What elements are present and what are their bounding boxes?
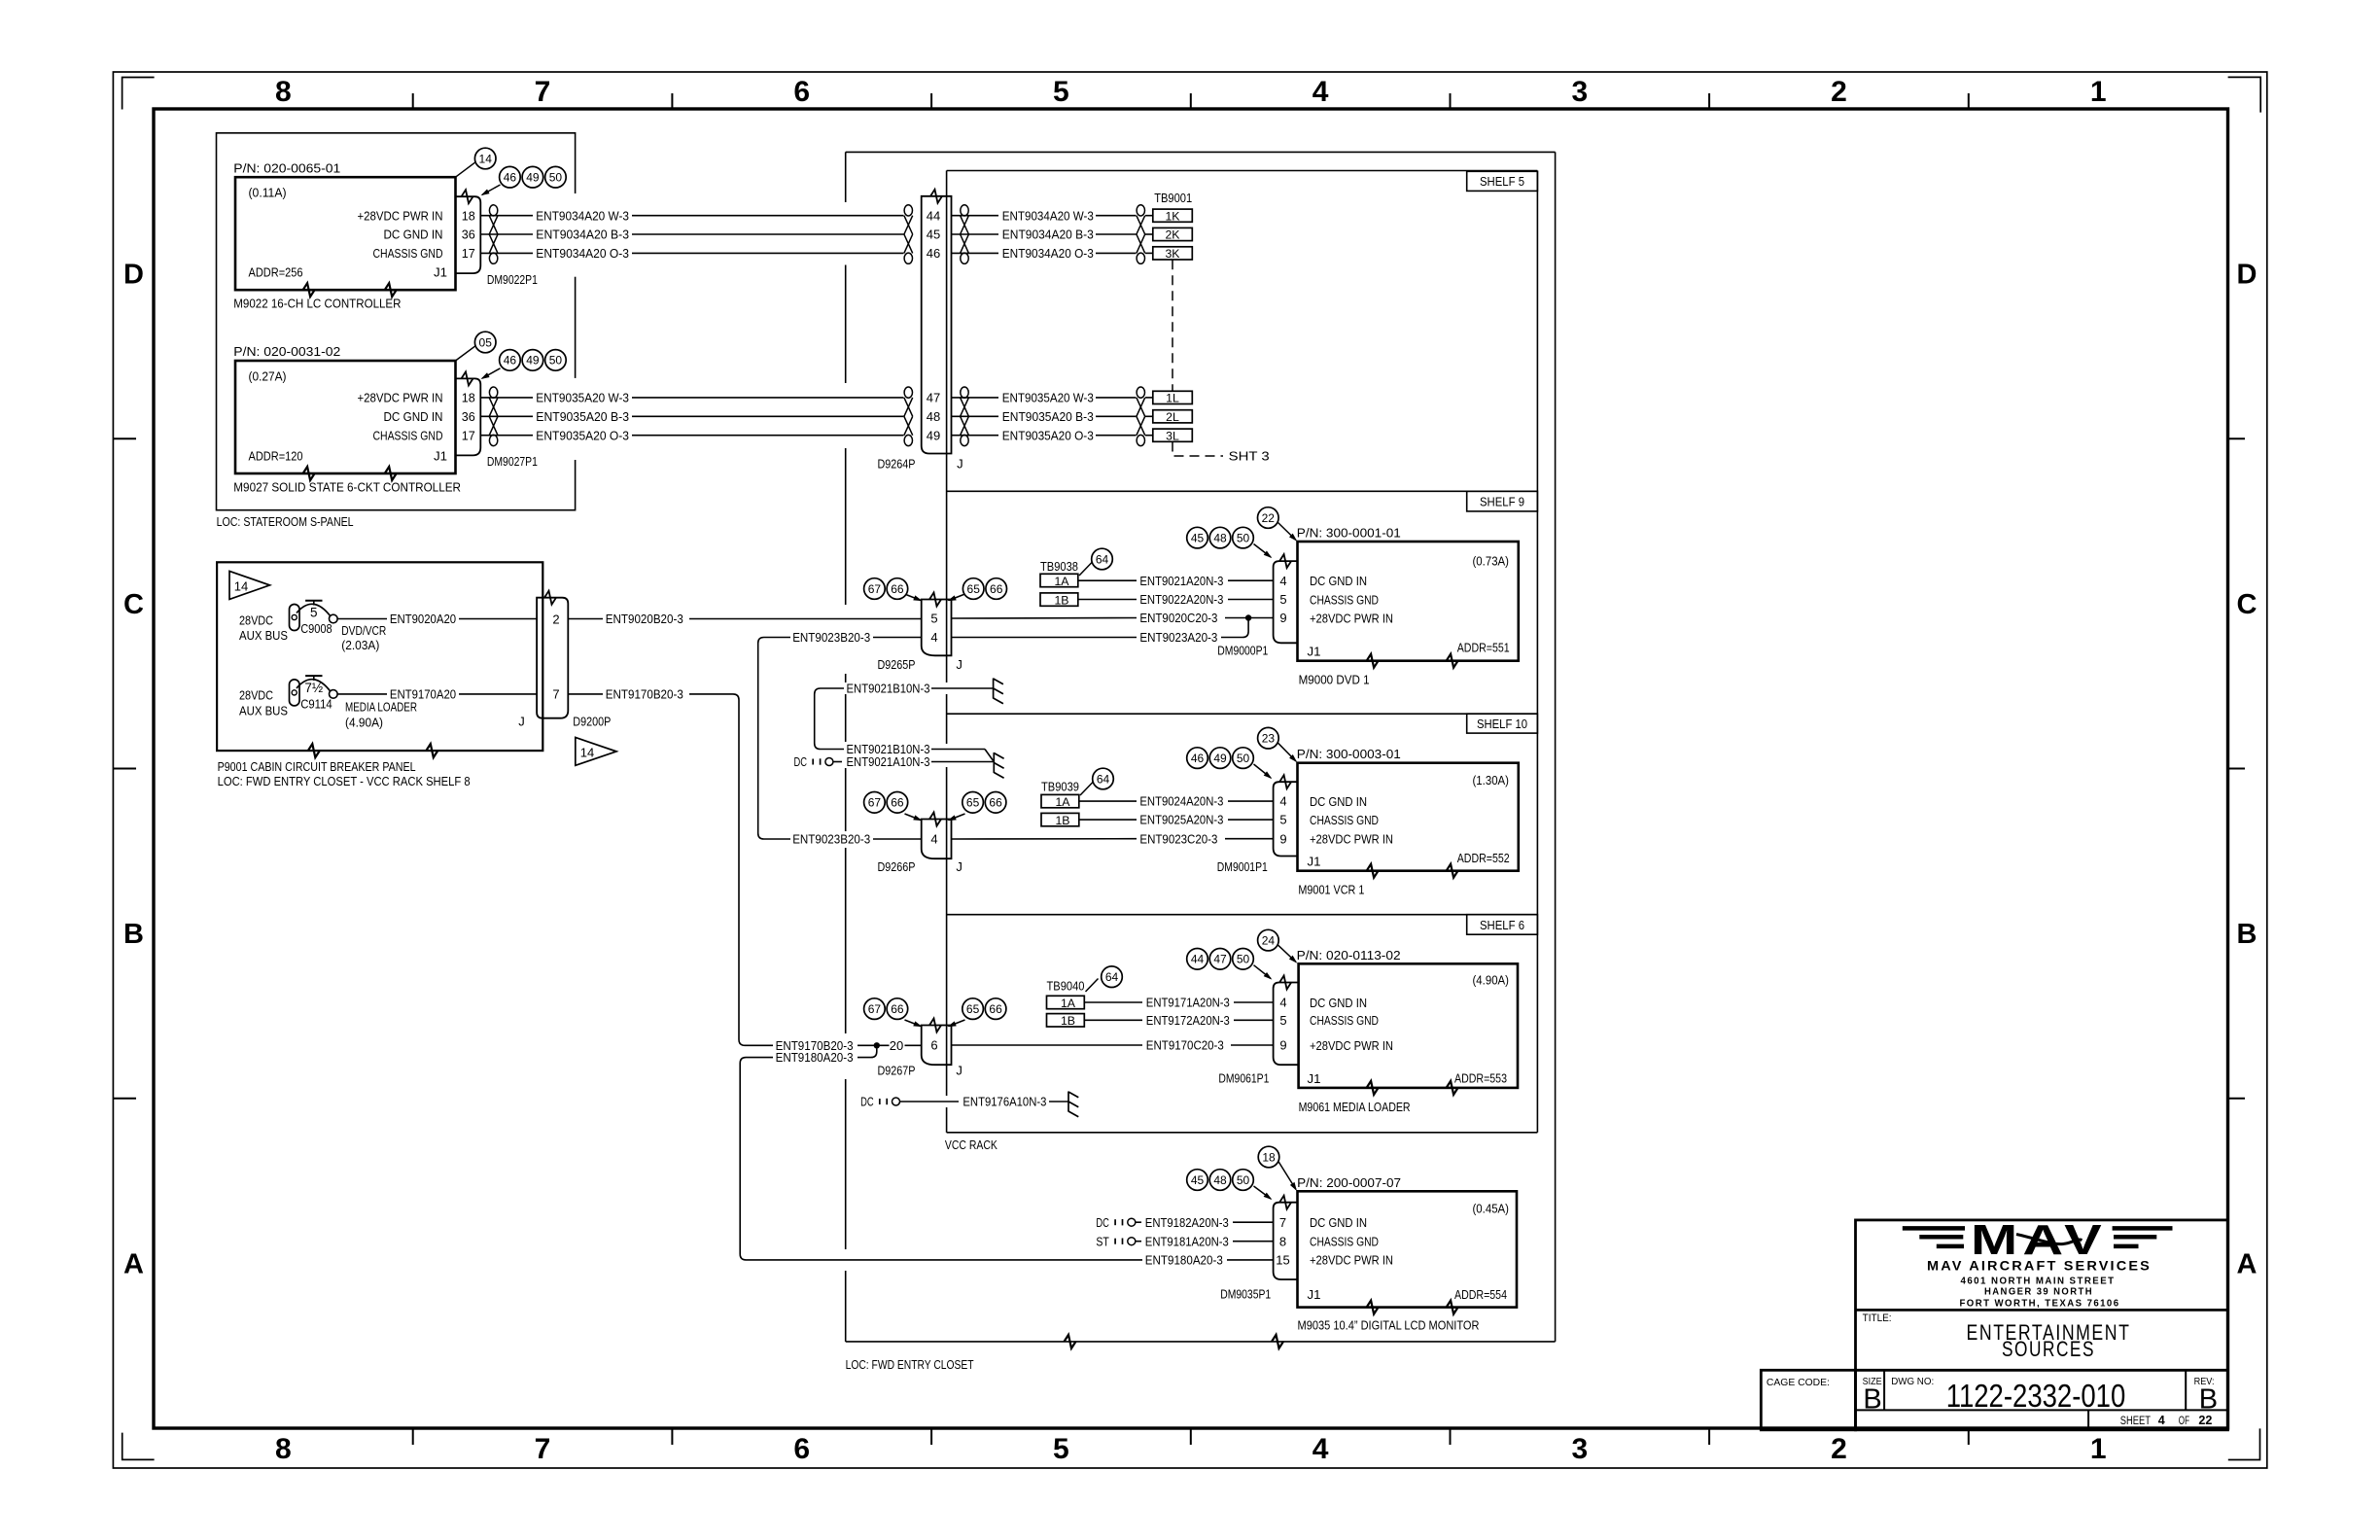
wire ENT9024A20N-3 — [1079, 800, 1137, 802]
chassis ground (ENT9021B10N/A10N) — [993, 752, 995, 773]
wire ENT9170B20-3 — [568, 693, 603, 695]
twisted wires at DM9022P1 — [489, 205, 497, 216]
svg-text:(0.27A): (0.27A) — [249, 369, 287, 384]
svg-text:DC GND IN: DC GND IN — [1310, 574, 1367, 588]
wire ENT9021B10N-3 (upper) to ground — [815, 688, 844, 750]
svg-text:P/N: 300-0003-01: P/N: 300-0003-01 — [1297, 747, 1401, 761]
svg-text:M9001 VCR 1: M9001 VCR 1 — [1298, 883, 1364, 897]
svg-text:CHASSIS GND: CHASSIS GND — [1310, 813, 1379, 827]
svg-text:DC: DC — [1096, 1215, 1109, 1230]
svg-text:TB9039: TB9039 — [1041, 780, 1079, 794]
svg-text:14: 14 — [234, 579, 248, 594]
svg-text:ENT9020C20-3: ENT9020C20-3 — [1139, 611, 1217, 625]
svg-text:M9027 SOLID STATE 6-CKT CO: M9027 SOLID STATE 6-CKT CONTROLLER — [233, 479, 461, 494]
svg-text:DC GND IN: DC GND IN — [1310, 1215, 1367, 1230]
terminal TB9001 1K — [1153, 209, 1193, 222]
balloons 46 49 50 (M9027) — [482, 368, 501, 378]
svg-text:ADDR=256: ADDR=256 — [249, 265, 303, 280]
svg-text:1L: 1L — [1166, 392, 1179, 405]
wire ENT9034A20 B-3 (to TB9001 2K) — [952, 233, 999, 235]
svg-text:DC: DC — [794, 754, 808, 769]
svg-text:SHELF 6: SHELF 6 — [1480, 919, 1524, 932]
svg-text:(2.03A): (2.03A) — [341, 638, 379, 652]
wire ENT9020B20-3 — [568, 618, 603, 620]
svg-text:ENT9035A20 O-3: ENT9035A20 O-3 — [1002, 428, 1094, 442]
svg-text:50: 50 — [1237, 1173, 1250, 1187]
svg-text:P9001 CABIN CIRCUIT BREAKER: P9001 CABIN CIRCUIT BREAKER PANEL — [218, 759, 416, 774]
svg-text:22: 22 — [1262, 511, 1276, 525]
svg-text:J: J — [956, 657, 962, 672]
svg-text:P/N: 300-0001-01: P/N: 300-0001-01 — [1297, 526, 1401, 541]
svg-text:ADDR=552: ADDR=552 — [1457, 851, 1510, 865]
svg-text:SHT 3: SHT 3 — [1229, 449, 1270, 464]
svg-text:J: J — [956, 859, 962, 874]
svg-text:ENT9025A20N-3: ENT9025A20N-3 — [1139, 813, 1223, 827]
wire ENT9023A20-3 — [952, 637, 1137, 639]
svg-text:67: 67 — [868, 796, 882, 810]
svg-text:1B: 1B — [1055, 814, 1069, 827]
svg-text:6: 6 — [930, 1038, 937, 1053]
svg-text:05: 05 — [479, 335, 493, 349]
svg-text:ENT9034A20 W-3: ENT9034A20 W-3 — [536, 208, 629, 223]
wire ENT9034A20 B-3 — [480, 233, 533, 235]
svg-text:47: 47 — [1213, 953, 1227, 966]
svg-text:ENT9176A10N-3: ENT9176A10N-3 — [962, 1095, 1046, 1109]
svg-text:B: B — [1863, 1384, 1881, 1416]
svg-text:4: 4 — [1312, 1433, 1329, 1465]
svg-text:CHASSIS GND: CHASSIS GND — [373, 428, 443, 442]
svg-text:D9265P: D9265P — [878, 657, 916, 672]
svg-text:DM9035P1: DM9035P1 — [1220, 1287, 1271, 1302]
svg-text:C: C — [123, 589, 144, 620]
svg-text:D9264P: D9264P — [878, 457, 916, 472]
svg-text:LOC: STATEROOM S-PANEL: LOC: STATEROOM S-PANEL — [217, 514, 354, 529]
svg-text:3: 3 — [1571, 76, 1588, 108]
svg-text:5: 5 — [930, 612, 937, 626]
svg-text:ENT9023C20-3: ENT9023C20-3 — [1139, 831, 1217, 846]
svg-text:47: 47 — [927, 391, 940, 405]
svg-text:C: C — [2237, 589, 2257, 620]
terminal TB9001 3L — [1153, 429, 1193, 441]
svg-text:9: 9 — [1279, 831, 1286, 846]
balloons 44 47 50 (M9061) — [1187, 949, 1208, 970]
device M9000 DVD 1 — [1298, 542, 1519, 661]
svg-text:65: 65 — [966, 796, 980, 810]
svg-text:J: J — [518, 715, 525, 729]
svg-text:CAGE CODE:: CAGE CODE: — [1767, 1377, 1830, 1388]
svg-text:ENT9023A20-3: ENT9023A20-3 — [1139, 630, 1217, 645]
wire ENT9025A20N-3 — [1079, 819, 1137, 821]
terminal TB9040 1A — [1047, 996, 1085, 1008]
svg-text:SHEET: SHEET — [2120, 1416, 2151, 1427]
svg-text:44: 44 — [1191, 953, 1205, 966]
connector DM9061P1 — [1274, 983, 1298, 1066]
svg-text:ENT9022A20N-3: ENT9022A20N-3 — [1139, 592, 1223, 607]
svg-text:66: 66 — [891, 582, 904, 596]
svg-text:+28VDC PWR IN: +28VDC PWR IN — [1310, 832, 1393, 847]
svg-text:1A: 1A — [1054, 575, 1069, 588]
svg-text:CHASSIS GND: CHASSIS GND — [373, 246, 443, 261]
svg-text:1K: 1K — [1165, 209, 1180, 223]
balloon 14 — [456, 161, 477, 178]
svg-text:P/N: 020-0031-02: P/N: 020-0031-02 — [233, 344, 340, 359]
svg-text:48: 48 — [1213, 531, 1227, 544]
svg-text:P/N: 200-0007-07: P/N: 200-0007-07 — [1297, 1175, 1401, 1190]
terminal TB9001 3K — [1153, 247, 1193, 260]
svg-text:DVD/VCR: DVD/VCR — [341, 623, 386, 638]
svg-text:D9267P: D9267P — [878, 1064, 916, 1078]
svg-text:DC GND IN: DC GND IN — [384, 409, 443, 424]
svg-text:CHASSIS GND: CHASSIS GND — [1310, 592, 1379, 607]
terminal TB9039 1B — [1041, 813, 1079, 825]
label box SHELF 9 — [1467, 491, 1538, 511]
svg-text:P/N: 020-0065-01: P/N: 020-0065-01 — [233, 160, 340, 175]
svg-text:18: 18 — [462, 208, 475, 223]
svg-text:66: 66 — [891, 796, 904, 810]
logo speed lines left — [1903, 1226, 1965, 1231]
svg-text:18: 18 — [462, 391, 475, 405]
svg-text:J1: J1 — [1308, 645, 1321, 659]
wire ENT9034A20 O-3 (to TB9001 3K) — [952, 252, 999, 254]
svg-text:LOC: FWD ENTRY CLOSET: LOC: FWD ENTRY CLOSET — [846, 1357, 974, 1372]
title block frame — [1856, 1220, 2228, 1430]
balloon 22 with arrow — [1258, 507, 1279, 529]
svg-text:65: 65 — [967, 582, 981, 596]
terminal TB9040 1B — [1047, 1014, 1085, 1027]
svg-text:ENT9170B20-3: ENT9170B20-3 — [606, 687, 683, 702]
svg-text:M9061 MEDIA LOADER: M9061 MEDIA LOADER — [1299, 1100, 1411, 1114]
svg-text:2: 2 — [1831, 1433, 1847, 1465]
svg-text:FORT WORTH, TEXAS 76106: FORT WORTH, TEXAS 76106 — [1960, 1298, 2120, 1309]
svg-text:(4.90A): (4.90A) — [1473, 973, 1510, 988]
device M9035 10.4 inch digital LCD monitor — [1298, 1191, 1518, 1307]
svg-text:ENT9034A20 O-3: ENT9034A20 O-3 — [536, 246, 629, 261]
svg-text:AUX BUS: AUX BUS — [239, 703, 288, 717]
svg-text:ENT9035A20 O-3: ENT9035A20 O-3 — [536, 428, 629, 442]
svg-text:8: 8 — [275, 1433, 292, 1465]
svg-text:D: D — [123, 260, 144, 291]
svg-text:ADDR=553: ADDR=553 — [1454, 1070, 1507, 1085]
connector D9265P — [922, 600, 952, 656]
connector DM9001P1 — [1274, 782, 1298, 856]
svg-text:ENT9020A20: ENT9020A20 — [390, 612, 456, 626]
svg-text:SOURCES: SOURCES — [2002, 1337, 2095, 1361]
svg-text:50: 50 — [1237, 531, 1250, 544]
balloon 64 (TB9040) — [1102, 966, 1123, 988]
svg-text:28VDC: 28VDC — [239, 612, 273, 627]
svg-text:44: 44 — [927, 208, 940, 223]
svg-text:(0.45A): (0.45A) — [1473, 1202, 1510, 1216]
svg-text:5: 5 — [1053, 76, 1069, 108]
shelf divider (shelf 6) — [947, 914, 1538, 916]
svg-text:66: 66 — [989, 1002, 1002, 1016]
svg-text:+28VDC PWR IN: +28VDC PWR IN — [1310, 611, 1393, 625]
svg-text:ENT9180A20-3: ENT9180A20-3 — [1145, 1253, 1223, 1268]
wire ENT9023C20-3 — [952, 838, 1137, 840]
svg-text:ENT9024A20N-3: ENT9024A20N-3 — [1139, 794, 1223, 809]
svg-text:ENT9035A20 W-3: ENT9035A20 W-3 — [536, 391, 629, 405]
svg-text:5: 5 — [1053, 1433, 1069, 1465]
svg-text:2L: 2L — [1166, 410, 1179, 424]
wire ENT9023B20-3 — [873, 637, 922, 639]
svg-text:48: 48 — [1213, 1173, 1227, 1187]
wire ENT9035A20 O-3 — [480, 435, 533, 437]
svg-text:ENT9023B20-3: ENT9023B20-3 — [792, 832, 870, 847]
svg-text:DM9061P1: DM9061P1 — [1218, 1070, 1269, 1085]
balloons 67 66 (D9267P) — [905, 1020, 922, 1027]
svg-text:5: 5 — [310, 606, 318, 620]
svg-text:6: 6 — [793, 1433, 810, 1465]
svg-text:67: 67 — [868, 582, 882, 596]
wire ENT9022A20N-3 — [1078, 599, 1137, 601]
svg-text:VCC RACK: VCC RACK — [945, 1137, 997, 1152]
svg-text:M9022 16-CH LC CONTROLLER: M9022 16-CH LC CONTROLLER — [233, 297, 401, 311]
wire ENT9171A20N-3 — [1084, 1001, 1142, 1003]
svg-text:ENT9035A20 B-3: ENT9035A20 B-3 — [1002, 409, 1094, 424]
wire ENT9035A20 B-3 — [480, 415, 533, 417]
svg-text:(4.90A): (4.90A) — [345, 716, 383, 730]
svg-text:3L: 3L — [1166, 429, 1179, 442]
connector D9264P — [922, 196, 952, 454]
device M9061 MEDIA LOADER — [1299, 963, 1518, 1088]
wire ENT9035A20 W-3 (to TB9001 1L) — [952, 397, 999, 399]
svg-text:8: 8 — [275, 76, 292, 108]
svg-text:DC GND IN: DC GND IN — [1310, 996, 1367, 1010]
chassis ground (ENT9176A10N-3) — [1067, 1092, 1069, 1112]
terminal TB9001 2L — [1153, 410, 1193, 423]
svg-text:MEDIA LOADER: MEDIA LOADER — [345, 700, 417, 715]
svg-text:D9200P: D9200P — [573, 715, 611, 729]
svg-text:ENT9170A20: ENT9170A20 — [390, 687, 456, 702]
svg-text:(1.30A): (1.30A) — [1473, 773, 1510, 787]
svg-text:64: 64 — [1105, 970, 1119, 984]
svg-text:ENT9021A10N-3: ENT9021A10N-3 — [847, 754, 930, 769]
svg-text:B: B — [2199, 1384, 2218, 1416]
svg-text:B: B — [2237, 919, 2257, 950]
svg-text:22: 22 — [2198, 1414, 2212, 1427]
svg-text:2: 2 — [1831, 76, 1847, 108]
svg-text:17: 17 — [462, 428, 475, 442]
wire ENT9021A20N-3 — [1078, 579, 1137, 581]
svg-text:64: 64 — [1097, 772, 1110, 786]
svg-text:14: 14 — [479, 152, 493, 165]
svg-text:ENT9035A20 B-3: ENT9035A20 B-3 — [536, 409, 629, 424]
svg-text:50: 50 — [1237, 752, 1250, 765]
balloons 46 49 50 (M9001) — [1187, 748, 1208, 769]
svg-text:LOC: FWD ENTRY CLOSET - V: LOC: FWD ENTRY CLOSET - VCC RACK SHELF 8 — [218, 774, 471, 788]
balloons 65 66 (D9266P) — [949, 814, 965, 821]
svg-text:20: 20 — [890, 1038, 903, 1053]
svg-text:D9266P: D9266P — [878, 859, 916, 874]
svg-text:4: 4 — [1279, 574, 1286, 588]
wire ENT9172A20N-3 — [1084, 1019, 1142, 1021]
svg-text:66: 66 — [891, 1002, 904, 1016]
svg-text:ADDR=120: ADDR=120 — [249, 448, 303, 463]
dashed link to SHT 3 — [1172, 442, 1223, 457]
terminal TB9038 1B — [1040, 593, 1078, 606]
svg-text:+28VDC PWR IN: +28VDC PWR IN — [358, 391, 443, 405]
svg-text:DC: DC — [860, 1095, 874, 1109]
balloon 64 (TB9039) — [1093, 768, 1114, 789]
junction node (ENT9170B20/9180A20) — [874, 1042, 880, 1048]
connector DM9035P1 — [1274, 1203, 1298, 1279]
svg-text:50: 50 — [1237, 953, 1250, 966]
wire ENT9170A20 — [337, 693, 387, 695]
svg-text:5: 5 — [1279, 813, 1286, 827]
svg-text:ENT9170C20-3: ENT9170C20-3 — [1146, 1038, 1224, 1053]
svg-text:TB9038: TB9038 — [1040, 559, 1078, 574]
wire ENT9034A20 W-3 — [480, 215, 533, 217]
balloons 45 48 50 (M9035) — [1187, 1170, 1208, 1191]
svg-text:ENT9034A20 O-3: ENT9034A20 O-3 — [1002, 246, 1094, 261]
svg-text:DM9000P1: DM9000P1 — [1217, 644, 1268, 658]
flag 14 (D9200P) — [576, 738, 616, 766]
svg-text:46: 46 — [927, 246, 940, 261]
svg-text:46: 46 — [504, 171, 517, 185]
svg-text:66: 66 — [990, 582, 1003, 596]
device M9001 VCR 1 — [1298, 763, 1519, 871]
svg-text:B: B — [123, 919, 144, 950]
svg-text:46: 46 — [504, 354, 517, 367]
svg-text:C9114: C9114 — [300, 696, 332, 711]
twisted wires left of D9264P — [904, 205, 912, 216]
svg-text:1: 1 — [2090, 1433, 2107, 1465]
svg-text:P/N: 020-0113-02: P/N: 020-0113-02 — [1297, 948, 1401, 962]
svg-text:4: 4 — [930, 630, 937, 645]
panel P9001 cabin circuit breaker panel — [217, 562, 542, 751]
svg-text:CHASSIS GND: CHASSIS GND — [1310, 1235, 1379, 1249]
svg-text:65: 65 — [966, 1002, 980, 1016]
svg-text:46: 46 — [1191, 752, 1205, 765]
balloon 23 with arrow — [1258, 727, 1279, 749]
connector DM9000P1 — [1274, 561, 1298, 643]
svg-text:36: 36 — [462, 227, 475, 242]
balloon 18 with arrow — [1258, 1146, 1279, 1168]
connector D9200P — [537, 598, 568, 718]
svg-text:1122-2332-010: 1122-2332-010 — [1946, 1378, 2126, 1414]
dashed link 3K to 1L — [1172, 260, 1173, 391]
svg-text:CHASSIS GND: CHASSIS GND — [1310, 1013, 1379, 1028]
svg-text:7: 7 — [535, 76, 551, 108]
balloon 24 with arrow — [1258, 929, 1279, 951]
balloon 05 — [456, 345, 477, 361]
svg-text:2: 2 — [552, 612, 559, 626]
svg-text:C9008: C9008 — [300, 621, 332, 636]
svg-text:1A: 1A — [1055, 795, 1070, 809]
svg-text:J1: J1 — [1308, 1287, 1321, 1302]
svg-text:45: 45 — [1191, 531, 1205, 544]
balloons 67 66 (D9266P) — [905, 814, 922, 821]
svg-text:3K: 3K — [1165, 247, 1180, 261]
svg-text:AUX BUS: AUX BUS — [239, 628, 288, 643]
balloon 64 (TB9038) — [1092, 548, 1113, 570]
label box SHELF 10 — [1467, 714, 1538, 733]
svg-text:66: 66 — [989, 796, 1002, 810]
enclosure LOC: FWD ENTRY CLOSET — [845, 152, 847, 202]
svg-text:J1: J1 — [434, 448, 447, 463]
svg-text:MAV AIRCRAFT SERVICES: MAV AIRCRAFT SERVICES — [1927, 1259, 2152, 1274]
svg-text:ENT9171A20N-3: ENT9171A20N-3 — [1146, 996, 1230, 1010]
svg-text:3: 3 — [1571, 1433, 1588, 1465]
svg-text:M9035 10.4” DIGITAL LCD MO: M9035 10.4” DIGITAL LCD MONITOR — [1298, 1317, 1480, 1332]
controller M9022 16-CH LC CONTROLLER — [235, 177, 456, 290]
terminal TB9001 2K — [1153, 227, 1193, 240]
svg-text:+28VDC PWR IN: +28VDC PWR IN — [358, 208, 443, 223]
terminal TB9039 1A — [1041, 794, 1079, 807]
svg-text:4: 4 — [1312, 76, 1329, 108]
svg-text:ENT9034A20 B-3: ENT9034A20 B-3 — [1002, 227, 1094, 242]
balloons 65 66 (D9265P) — [949, 594, 965, 601]
wire ENT9020C20-3 — [952, 617, 1137, 620]
svg-text:OF: OF — [2179, 1416, 2189, 1427]
wire ENT9180A20-3 — [857, 1049, 877, 1058]
svg-text:49: 49 — [526, 354, 540, 367]
svg-text:49: 49 — [927, 428, 940, 442]
svg-text:ENT9021B10N-3: ENT9021B10N-3 — [847, 682, 930, 696]
junction node (ENT9020C/9023A) — [1245, 614, 1251, 620]
svg-text:+28VDC PWR IN: +28VDC PWR IN — [1310, 1038, 1393, 1053]
twisted wires at DM9027P1 — [489, 387, 497, 398]
svg-text:(0.11A): (0.11A) — [249, 186, 287, 200]
twisted wires right of D9264P — [961, 205, 968, 216]
svg-text:HANGER 39 NORTH: HANGER 39 NORTH — [1984, 1287, 2093, 1298]
svg-text:DWG NO:: DWG NO: — [1891, 1376, 1934, 1387]
svg-text:ST: ST — [1096, 1234, 1109, 1248]
svg-text:67: 67 — [868, 1002, 882, 1016]
logo speed lines right — [2113, 1226, 2173, 1231]
connector D9266P — [922, 820, 952, 859]
svg-text:J: J — [956, 1064, 962, 1078]
wire ENT9035A20 B-3 (to TB9001 2L) — [952, 415, 999, 417]
svg-text:48: 48 — [927, 409, 940, 424]
svg-text:5: 5 — [1279, 592, 1286, 607]
svg-text:SHELF 5: SHELF 5 — [1480, 175, 1524, 189]
svg-text:SHELF 10: SHELF 10 — [1477, 717, 1527, 731]
balloons 67 66 (D9265P) — [905, 594, 922, 601]
svg-text:ADDR=551: ADDR=551 — [1457, 640, 1510, 654]
terminal TB9038 1A — [1040, 574, 1078, 586]
connector D9267P — [922, 1026, 952, 1066]
svg-text:(0.73A): (0.73A) — [1473, 554, 1510, 569]
svg-text:5: 5 — [1279, 1013, 1286, 1028]
svg-text:1: 1 — [2090, 76, 2107, 108]
controller M9027 SOLID STATE 6-CKT CONTROLLER — [235, 361, 456, 473]
svg-text:49: 49 — [1213, 752, 1227, 765]
svg-text:DM9027P1: DM9027P1 — [487, 454, 538, 469]
svg-text:9: 9 — [1279, 1038, 1286, 1053]
wire ENT9020A20 — [337, 618, 387, 620]
svg-text:4: 4 — [1279, 794, 1286, 809]
svg-text:2K: 2K — [1165, 228, 1180, 242]
svg-text:4: 4 — [930, 832, 937, 847]
svg-text:49: 49 — [526, 171, 540, 185]
svg-text:7: 7 — [552, 687, 559, 702]
svg-text:D: D — [2237, 260, 2257, 291]
svg-text:24: 24 — [1262, 933, 1276, 947]
svg-text:4: 4 — [1279, 996, 1286, 1010]
balloons 46 49 50 — [482, 185, 501, 194]
svg-text:ENT9023B20-3: ENT9023B20-3 — [792, 630, 870, 645]
svg-text:TITLE:: TITLE: — [1863, 1312, 1892, 1324]
svg-text:17: 17 — [462, 246, 475, 261]
svg-text:6: 6 — [793, 76, 810, 108]
svg-text:50: 50 — [549, 171, 563, 185]
svg-text:DM9001P1: DM9001P1 — [1217, 859, 1268, 874]
svg-text:ENT9034A20 B-3: ENT9034A20 B-3 — [536, 227, 629, 242]
svg-text:1B: 1B — [1054, 593, 1068, 607]
svg-text:8: 8 — [1279, 1234, 1286, 1248]
svg-text:ENT9034A20 W-3: ENT9034A20 W-3 — [1002, 208, 1094, 223]
